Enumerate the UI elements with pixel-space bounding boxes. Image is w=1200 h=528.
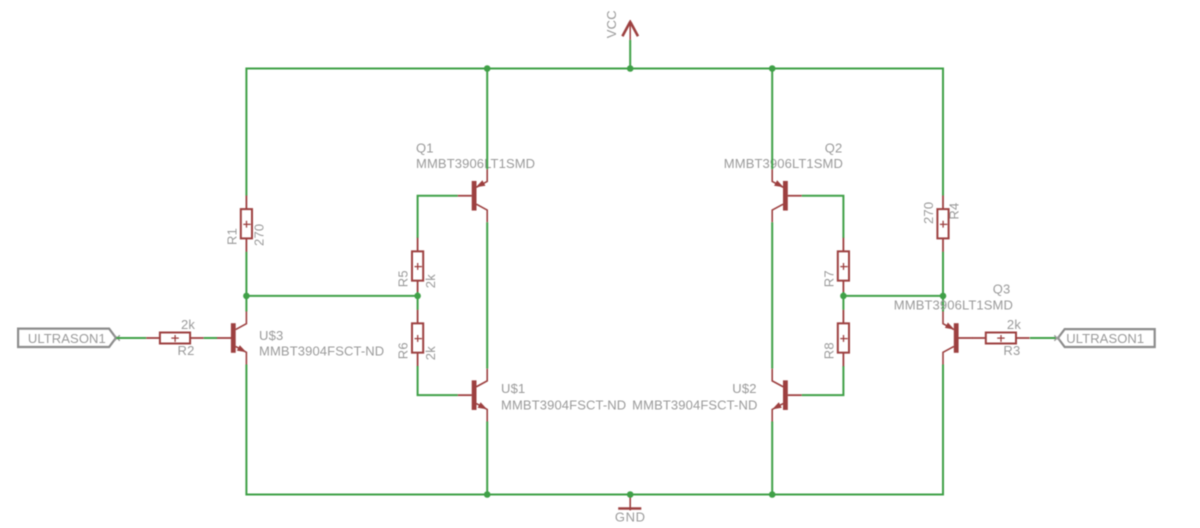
- wire Q2 base run down to R7: [802, 196, 844, 238]
- junction VCC on top rail: [627, 65, 634, 72]
- svg-text:MMBT3904FSCT-ND: MMBT3904FSCT-ND: [259, 344, 384, 359]
- wire R2 to U$3 base: [204, 337, 217, 339]
- wire R5 to node: [417, 292, 419, 296]
- svg-text:270: 270: [921, 202, 936, 224]
- wire R4 to node and Q3 emitter: [942, 252, 944, 312]
- svg-text:MMBT3906LT1SMD: MMBT3906LT1SMD: [724, 156, 843, 171]
- junction Q1 top rail: [484, 65, 491, 72]
- junction node R7-R8: [840, 293, 847, 300]
- svg-text:VCC: VCC: [604, 10, 619, 38]
- junction node left (R1/U$3/wire): [243, 293, 250, 300]
- transistor Q2 MMBT3906: [772, 169, 802, 222]
- resistor R4: [921, 196, 962, 252]
- wire left mid horizontal to R5-R6 node: [246, 295, 417, 297]
- wire U$2 emitter to bottom rail: [771, 422, 773, 495]
- svg-text:Q2: Q2: [825, 140, 843, 155]
- resistor R2: [146, 317, 203, 358]
- junction node R5-R6: [414, 293, 421, 300]
- wire R7 to node: [842, 292, 844, 296]
- svg-text:U$3: U$3: [259, 328, 283, 343]
- svg-text:R6: R6: [396, 342, 411, 359]
- svg-text:ULTRASON1: ULTRASON1: [28, 331, 106, 346]
- junction U$2 bottom rail: [769, 491, 776, 498]
- resistor R6: [396, 310, 438, 366]
- wire node to R6: [417, 296, 419, 310]
- wire R6 down to U$1 base: [418, 366, 458, 395]
- svg-text:Q3: Q3: [993, 282, 1011, 297]
- transistor Q3 MMBT3906: [943, 312, 973, 365]
- junction node right (R4/Q3/wire): [940, 293, 947, 300]
- wire Q2 collector to U$2 collector: [771, 222, 773, 368]
- wire top rail with left and right verticals: [246, 69, 943, 196]
- wire flag to R2: [116, 337, 146, 339]
- resistor R7: [822, 238, 850, 294]
- svg-text:ULTRASON1: ULTRASON1: [1066, 331, 1144, 346]
- wire Q2 emitter to top rail: [771, 69, 773, 170]
- wire node to R8: [842, 296, 844, 310]
- wire U$1 emitter to bottom rail: [486, 422, 488, 495]
- transistor U$1 MMBT3904: [458, 369, 487, 422]
- svg-text:MMBT3904FSCT-ND: MMBT3904FSCT-ND: [632, 398, 757, 413]
- svg-text:R4: R4: [947, 203, 962, 220]
- net flag ULTRASON1 left: [18, 329, 120, 347]
- wire U$2 base run to R8: [802, 366, 844, 395]
- transistor Q1 MMBT3906: [458, 169, 487, 222]
- svg-text:Q1: Q1: [416, 140, 434, 155]
- wire R1 to mid junction and U$3 collector: [245, 252, 247, 312]
- resistor R5: [396, 238, 438, 294]
- wire R3 to right flag: [1030, 337, 1058, 339]
- wire Q1 base run down to R5: [418, 196, 458, 238]
- svg-text:R1: R1: [225, 228, 240, 245]
- wire Q1 collector to U$1 collector: [486, 222, 488, 368]
- svg-text:R2: R2: [178, 343, 195, 358]
- svg-text:R5: R5: [396, 270, 411, 287]
- svg-text:2k: 2k: [423, 274, 438, 288]
- net flag ULTRASON1 right: [1054, 329, 1154, 347]
- svg-text:MMBT3904FSCT-ND: MMBT3904FSCT-ND: [501, 398, 626, 413]
- ground GND symbol: [615, 495, 646, 525]
- svg-text:MMBT3906LT1SMD: MMBT3906LT1SMD: [894, 298, 1013, 313]
- transistor U$3 MMBT3904: [217, 312, 246, 365]
- transistor U$2 MMBT3904: [772, 369, 802, 422]
- junction U$1 bottom rail: [484, 491, 491, 498]
- svg-text:GND: GND: [615, 510, 646, 525]
- junction GND on bottom rail: [627, 491, 634, 498]
- svg-text:MMBT3906LT1SMD: MMBT3906LT1SMD: [416, 156, 535, 171]
- svg-text:U$2: U$2: [732, 381, 756, 396]
- wire right mid horizontal to R4 node: [843, 295, 943, 297]
- svg-text:2k: 2k: [423, 346, 438, 360]
- svg-text:R3: R3: [1003, 343, 1020, 358]
- power VCC symbol: [604, 10, 638, 68]
- svg-text:2k: 2k: [1007, 317, 1021, 332]
- junction Q2 top rail: [769, 65, 776, 72]
- resistor R8: [822, 310, 850, 366]
- wire Q1 emitter to top rail: [486, 69, 488, 170]
- svg-text:R7: R7: [822, 270, 837, 287]
- svg-text:R8: R8: [822, 342, 837, 359]
- svg-text:2k: 2k: [181, 317, 195, 332]
- wire bottom rail with left and right verticals: [246, 365, 943, 495]
- svg-text:U$1: U$1: [501, 381, 525, 396]
- resistor R1: [225, 196, 267, 252]
- resistor R3: [972, 317, 1029, 358]
- svg-text:270: 270: [252, 224, 267, 246]
